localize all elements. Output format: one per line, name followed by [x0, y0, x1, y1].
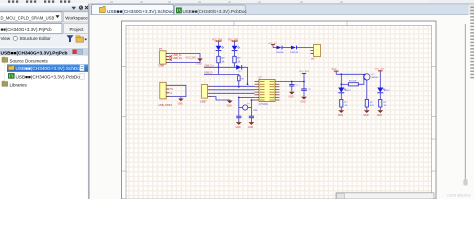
svg-text:GND: GND	[248, 127, 253, 129]
svg-text:GND: GND	[301, 102, 306, 104]
svg-text:USB_D+: USB_D+	[204, 64, 214, 67]
svg-text:Structure Editor: Structure Editor	[20, 36, 52, 41]
svg-text:USB■■(CH340G+3.3V).SchDo: USB■■(CH340G+3.3V).SchDo	[16, 66, 81, 71]
svg-text:VCC_5V0: VCC_5V0	[186, 57, 197, 59]
svg-text:Source Documents: Source Documents	[10, 58, 49, 63]
svg-text:D_MCU_CPLD_SRAM_USB: D_MCU_CPLD_SRAM_USB	[1, 15, 55, 20]
svg-text:VCC_3V3: VCC_3V3	[375, 69, 386, 71]
svg-text:USB_HOST: USB_HOST	[159, 104, 173, 107]
svg-text:VCC_3V3: VCC_3V3	[299, 71, 310, 73]
svg-text:Project: Project	[69, 27, 84, 32]
svg-text:View: View	[1, 36, 11, 41]
svg-text:■■(CH340G+3.3V).PrjPcb: ■■(CH340G+3.3V).PrjPcb	[1, 27, 53, 32]
svg-text:5V: 5V	[170, 89, 173, 91]
svg-text:GND: GND	[227, 105, 232, 107]
svg-text:12M: 12M	[253, 110, 257, 112]
svg-text:1K: 1K	[238, 61, 241, 63]
svg-text:USB■■(CH340G+3.3V).SchDoc: USB■■(CH340G+3.3V).SchDoc	[107, 9, 174, 14]
svg-text:USB■■(CH340G+3.3V).PcbDo: USB■■(CH340G+3.3V).PcbDo	[16, 75, 81, 80]
svg-text:GND: GND	[377, 115, 382, 117]
svg-text:1K: 1K	[222, 61, 225, 63]
svg-text:VCC_5V: VCC_5V	[268, 43, 277, 45]
svg-text:USB: USB	[159, 63, 165, 67]
svg-text:GND: GND	[338, 115, 343, 117]
svg-text:USB■■(CH340G+3.3V).PcbDoc: USB■■(CH340G+3.3V).PcbDoc	[183, 9, 248, 14]
svg-text:CH340G: CH340G	[259, 103, 269, 106]
svg-text:LED?: LED?	[384, 90, 390, 92]
svg-text:USB_D+: USB_D+	[173, 57, 183, 60]
svg-text:USB?: USB?	[200, 101, 207, 104]
svg-text:GND: GND	[236, 127, 241, 129]
svg-text:CSDN @Bx9F2u: CSDN @Bx9F2u	[447, 194, 471, 198]
svg-text:1N4148: 1N4148	[276, 52, 284, 54]
svg-text:LED?: LED?	[345, 90, 351, 92]
svg-text:GND: GND	[289, 97, 294, 99]
svg-text:R? 10K: R? 10K	[349, 81, 357, 83]
svg-text:GND: GND	[197, 64, 202, 66]
svg-text:VCC: VCC	[332, 69, 337, 71]
svg-text:GND: GND	[363, 115, 368, 117]
svg-text:1N4148: 1N4148	[290, 52, 298, 54]
svg-text:USB■■(CH340G+3.3V).PrjPcb: USB■■(CH340G+3.3V).PrjPcb	[1, 51, 68, 57]
svg-text:Workspace: Workspace	[65, 15, 88, 20]
svg-text:S8550: S8550	[372, 77, 379, 79]
svg-text:GND: GND	[178, 103, 183, 105]
svg-text:G: G	[170, 93, 172, 95]
svg-text:USB_D-: USB_D-	[204, 72, 213, 75]
svg-text:P?: P?	[159, 47, 163, 51]
svg-text:Libraries: Libraries	[10, 82, 28, 87]
